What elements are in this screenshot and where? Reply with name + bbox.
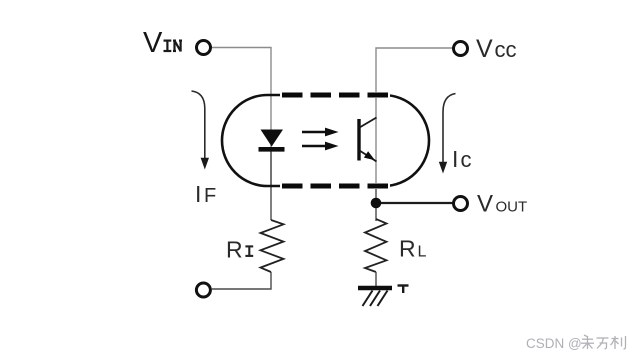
glyph WAN <box>597 338 609 349</box>
label VIN <box>143 27 182 59</box>
svg-text:I: I <box>195 181 201 207</box>
resistor R1 <box>261 220 284 272</box>
LED D1 cathode bar <box>259 147 285 152</box>
svg-text:c: c <box>461 147 472 172</box>
light arrow lower <box>302 142 339 151</box>
current arrow IC <box>439 94 456 174</box>
package top dashed boundary <box>280 92 390 98</box>
glyph ZHU <box>581 335 594 349</box>
transistor Q1 emitter arrowhead <box>364 151 375 160</box>
pin mark T <box>398 286 409 294</box>
label VOUT <box>477 191 527 218</box>
node VOUT junction <box>371 198 382 209</box>
label IC <box>452 146 472 172</box>
svg-text:OUT: OUT <box>496 199 528 216</box>
wire emitter to node <box>375 186 377 206</box>
svg-text:V: V <box>143 27 163 59</box>
LED D1 triangle <box>261 130 284 147</box>
transistor Q1 base bar <box>357 119 360 161</box>
wire node to resistor RL <box>375 206 377 221</box>
svg-text:R: R <box>399 236 416 262</box>
watermark author glyphs <box>581 335 626 349</box>
svg-text:F: F <box>204 185 216 207</box>
transistor Q1 collector <box>360 118 377 128</box>
svg-text:cc: cc <box>495 37 517 62</box>
optocoupler package U1 <box>222 95 429 186</box>
terminal VCC <box>454 42 468 56</box>
svg-text:V: V <box>477 191 493 218</box>
wire RL to ground <box>375 272 377 287</box>
glyph LI <box>611 336 626 349</box>
svg-text:L: L <box>418 244 427 261</box>
wire VCC to collector <box>376 48 452 186</box>
label RL <box>399 236 427 262</box>
svg-text:R: R <box>226 237 243 263</box>
wire node to VOUT terminal <box>381 202 453 204</box>
terminal VIN <box>197 41 211 55</box>
terminal input return <box>196 283 210 297</box>
resistor RL <box>365 219 387 272</box>
wire LED cathode to resistor R1 <box>270 151 272 220</box>
light arrow upper <box>302 128 339 137</box>
svg-text:V: V <box>476 35 493 63</box>
terminal VOUT <box>454 197 468 211</box>
transistor Q1 emitter <box>360 151 377 162</box>
svg-text:I: I <box>452 146 458 172</box>
label R1 <box>226 237 253 263</box>
svg-text:CSDN @: CSDN @ <box>526 336 582 351</box>
package bottom dashed boundary <box>280 183 390 189</box>
ground <box>358 288 392 306</box>
label IF <box>195 181 216 207</box>
wire R1 to lower terminal <box>212 272 271 289</box>
current arrow IF <box>192 91 210 170</box>
wire VIN to LED anode <box>212 48 271 187</box>
label VCC <box>476 35 517 63</box>
